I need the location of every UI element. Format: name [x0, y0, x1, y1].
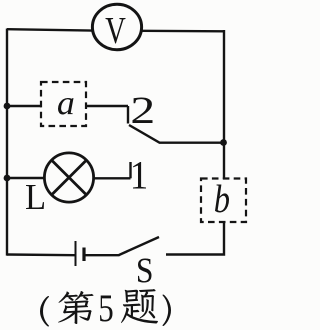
lamp label L	[26, 185, 44, 209]
voltmeter U1 circle	[92, 4, 141, 49]
label a	[58, 98, 74, 115]
voltmeter label V	[106, 18, 126, 44]
wire node to a box	[7, 105, 41, 107]
contact 1 stub	[129, 162, 131, 178]
lamp L circle	[44, 153, 93, 202]
battery long plate	[75, 241, 77, 266]
node junction right	[220, 139, 227, 146]
lamp X cross	[52, 160, 87, 195]
wire bottom left	[7, 253, 75, 256]
wire right upper	[223, 30, 225, 143]
caption 题	[121, 289, 158, 324]
contact 2 stub	[127, 106, 129, 124]
battery short plate	[82, 248, 85, 262]
caption 5	[100, 296, 113, 322]
resistor box b (dashed)	[201, 179, 246, 223]
wire top left segment	[7, 29, 93, 30]
wire lamp to contact 1	[94, 177, 131, 179]
wire node to lamp	[7, 177, 45, 179]
wire left vertical	[6, 29, 8, 256]
wire battery to switch pivot	[84, 254, 120, 256]
label b	[215, 185, 229, 213]
caption 第	[58, 291, 94, 324]
switch label S	[138, 259, 152, 283]
wire b box to bottom corner	[166, 223, 224, 255]
switch S blade	[119, 237, 159, 255]
wire top right segment	[142, 30, 225, 33]
selector blade to node	[129, 125, 224, 143]
wire a box to contact 2	[86, 105, 128, 107]
label 1	[133, 162, 146, 189]
caption )	[163, 295, 172, 327]
meter box a (dashed)	[41, 82, 86, 126]
caption (	[40, 296, 49, 327]
node junction a branch	[4, 103, 11, 110]
label 2	[133, 98, 153, 124]
wire right to b box	[223, 143, 225, 179]
node junction lamp branch	[4, 175, 11, 182]
